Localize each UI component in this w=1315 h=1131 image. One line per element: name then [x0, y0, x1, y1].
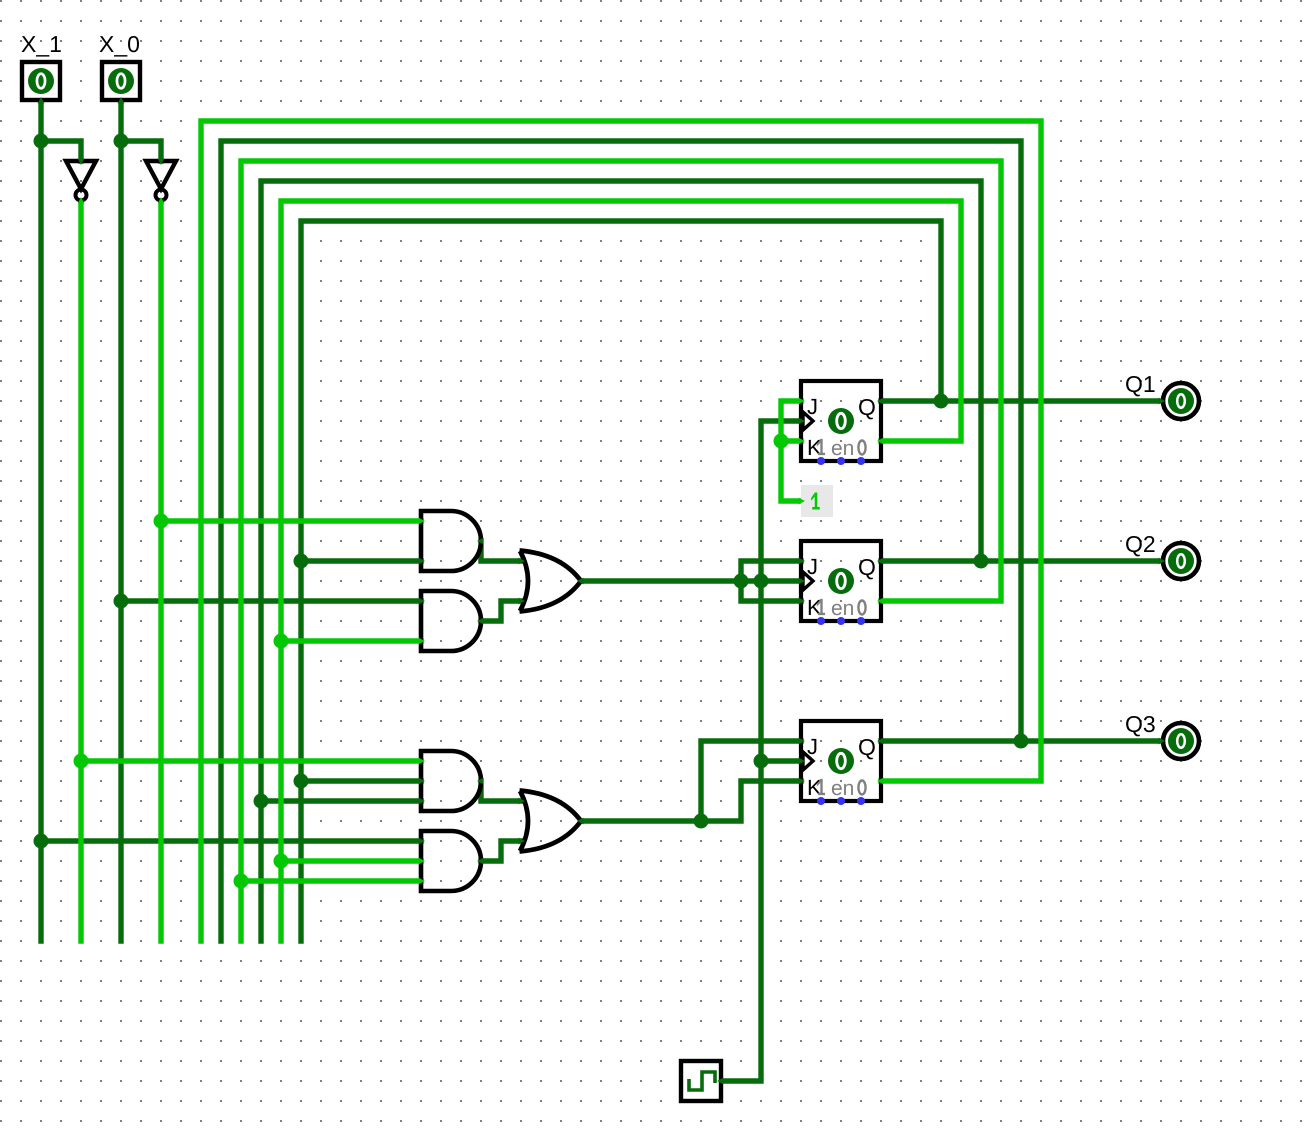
- svg-text:Q: Q: [858, 554, 876, 580]
- svg-text:J: J: [807, 554, 818, 579]
- svg-text:Q3: Q3: [1125, 711, 1156, 737]
- svg-text:en: en: [831, 597, 854, 620]
- svg-text:K: K: [807, 775, 822, 800]
- svg-text:Q: Q: [858, 734, 876, 760]
- svg-text:en: en: [831, 437, 854, 460]
- svg-text:Q2: Q2: [1125, 531, 1156, 557]
- svg-text:Q: Q: [858, 394, 876, 420]
- svg-text:X_1: X_1: [21, 31, 62, 57]
- svg-text:X_0: X_0: [99, 31, 140, 57]
- svg-text:J: J: [807, 394, 818, 419]
- svg-text:K: K: [807, 595, 822, 620]
- svg-text:K: K: [807, 435, 822, 460]
- svg-text:J: J: [807, 734, 818, 759]
- svg-text:en: en: [831, 777, 854, 800]
- svg-text:Q1: Q1: [1125, 371, 1156, 397]
